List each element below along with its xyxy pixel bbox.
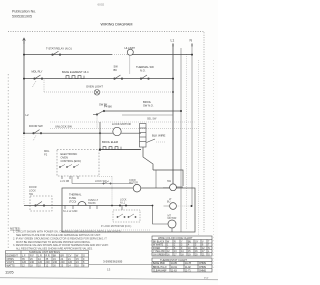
wire EOC to right dotted: [99, 176, 112, 178]
wire switch terminal down to dotted row: [96, 115, 98, 129]
switch on row1: [52, 51, 61, 55]
svg-text:GN GREEN: GN GREEN: [153, 254, 166, 256]
svg-text:G: G: [208, 254, 210, 256]
switch actuator linkage row7: [33, 136, 36, 142]
svg-text:P2: P2: [44, 152, 48, 156]
wire dotted neutral return 1: [186, 54, 188, 230]
svg-text:R RED: R RED: [153, 248, 160, 250]
lock motor circle: [113, 127, 121, 135]
svg-text:OHMS: OHMS: [199, 263, 206, 265]
svg-text:SW: SW: [29, 193, 34, 196]
svg-text:CONTROL (EOC): CONTROL (EOC): [61, 159, 82, 163]
svg-text:6002: 6002: [98, 3, 105, 7]
L1 bus top tick: [172, 44, 174, 47]
svg-text:BAKE 350F: BAKE 350F: [153, 262, 166, 265]
fuse side label: [88, 199, 99, 205]
EOC pins: [62, 176, 78, 179]
wire row lock to box: [24, 205, 62, 207]
oven lamp symbol: [94, 90, 100, 96]
junction dots on wire: [119, 205, 121, 207]
svg-text:SEL SW: SEL SW: [147, 118, 157, 121]
svg-text:OVEN LIGHT: OVEN LIGHT: [86, 85, 103, 89]
publication number header text: [12, 10, 36, 19]
row 3: oven lamp dotted wire: [44, 91, 173, 93]
svg-text:BU: BU: [167, 201, 171, 204]
svg-text:SW BK: SW BK: [88, 202, 96, 205]
svg-text:LOCK MOTOR: LOCK MOTOR: [112, 122, 131, 126]
svg-text:ELECTRONIC: ELECTRONIC: [61, 152, 78, 156]
svg-text:DOOR SW: DOOR SW: [29, 124, 43, 128]
junction left bus row1: [23, 54, 25, 56]
svg-text:10-91: 10-91: [171, 267, 178, 269]
lamp2 circle: [170, 203, 177, 210]
wire across to right bus: [153, 170, 183, 186]
wire inside box row: [62, 205, 153, 207]
wire stub circle left: [163, 187, 170, 189]
junction left bus row2: [23, 78, 25, 80]
svg-text:11-02: 11-02: [185, 267, 191, 269]
junction row8: [99, 149, 101, 151]
svg-text:(TCO): (TCO): [69, 200, 76, 204]
svg-text:SW N.O.: SW N.O.: [143, 104, 154, 108]
svg-text:BAKE ELEMENT 16.4: BAKE ELEMENT 16.4: [62, 70, 89, 74]
wire vertical x156: [155, 170, 157, 188]
EOC internal contact 1: [59, 165, 65, 168]
broil element resistive symbol: [103, 147, 121, 150]
lock sw contact: [103, 181, 111, 184]
wire row1 right segment: [128, 54, 193, 56]
svg-text:3-5995361905: 3-5995361905: [103, 259, 123, 263]
dotted wire lamp2 to N: [176, 205, 191, 207]
svg-text:FUSE: FUSE: [69, 196, 76, 200]
switch on row2 mid: [114, 75, 123, 79]
wire junction down to sub box: [121, 206, 123, 211]
junction row2 to L1 bus: [172, 78, 174, 80]
lock motor lower circle: [168, 220, 176, 228]
svg-text:CLEAN 840F: CLEAN 840F: [153, 269, 167, 272]
wire L1 right bus vertical: [172, 44, 174, 184]
svg-text:WIRE COLOR CODE CHART: WIRE COLOR CODE CHART: [158, 236, 193, 240]
svg-text:N L1: N L1: [120, 202, 126, 205]
svg-text:BLK WIRE: BLK WIRE: [152, 134, 166, 138]
left table: [6, 251, 89, 268]
notes underline: [10, 229, 20, 231]
left table cells: [7, 254, 86, 267]
junction label: [120, 199, 127, 205]
junction left bus row7: [23, 132, 25, 134]
svg-text:BU: BU: [188, 241, 192, 243]
lamp2 label: [167, 198, 172, 204]
svg-text:N.O.: N.O.: [140, 68, 146, 72]
EOC internal contact 2: [66, 165, 72, 168]
selector blade: [147, 139, 156, 143]
door lock dashed box: [30, 196, 52, 211]
svg-text:GY: GY: [195, 241, 199, 243]
svg-text:WIRING DIAGRAM: WIRING DIAGRAM: [101, 22, 133, 26]
svg-text:THERMAL: THERMAL: [69, 193, 82, 197]
lock switch wire in box: [72, 183, 133, 185]
switch on row7: [33, 130, 42, 134]
svg-text:BROIL ELEM: BROIL ELEM: [102, 140, 119, 144]
row 5 dotted wire: [50, 121, 195, 123]
svg-text:WATTS: WATTS: [7, 264, 16, 267]
switch actuator linkage row2: [33, 81, 37, 87]
sub dashed box: [113, 210, 140, 222]
row 4b wire: [93, 114, 97, 116]
svg-text:L1 N DB: L1 N DB: [60, 180, 69, 183]
switch inside lock box: [35, 202, 45, 207]
svg-text:5995361905: 5995361905: [12, 15, 32, 19]
svg-text:MDL RLY: MDL RLY: [32, 69, 43, 73]
dotted header rule: [8, 32, 204, 233]
EOC internal contact 3: [73, 165, 79, 168]
row 1: clock circuit wire: [24, 54, 112, 56]
switch on row2 right: [140, 75, 149, 79]
terminal block big box: [62, 188, 195, 232]
svg-text:BK BLACK: BK BLACK: [153, 240, 165, 243]
lower motor tick: [171, 228, 173, 232]
right table A cells: [153, 240, 210, 256]
svg-text:Publication No.: Publication No.: [12, 10, 36, 14]
svg-text:L2: L2: [26, 113, 30, 117]
switch on row2 mid label: [114, 65, 119, 72]
right table B: [152, 258, 212, 272]
svg-text:11-71: 11-71: [185, 270, 191, 272]
wire EOC pin down to lock switch: [71, 176, 73, 184]
wire dotted neutral return 2: [198, 60, 200, 235]
EOC dashed box: [57, 150, 99, 177]
page edge gray line: [0, 278, 218, 280]
row 6 dotted wire: [50, 128, 199, 130]
svg-text:OVEN: OVEN: [61, 155, 68, 159]
footer center rule: [89, 264, 152, 266]
thermal fuse bump: [78, 202, 86, 206]
junction row1 to N bus: [191, 54, 193, 56]
svg-text:10-78: 10-78: [185, 263, 192, 265]
right table A: [152, 236, 212, 256]
junction wire y205: [152, 205, 154, 207]
svg-text:UNLOCK SW: UNLOCK SW: [55, 125, 72, 129]
right table B cells: [153, 262, 206, 272]
svg-text:T-STAT RELAY (N.O.): T-STAT RELAY (N.O.): [46, 47, 72, 51]
row 4c wire right: [122, 114, 173, 116]
svg-text:THERMOSTAT CHART: THERMOSTAT CHART: [160, 258, 187, 262]
selector switch column: [140, 124, 147, 148]
svg-text:ALL RESISTANCE VALUES SHOWN AR: ALL RESISTANCE VALUES SHOWN ARE APPROXIM…: [16, 247, 93, 250]
wire N bus vertical: [191, 44, 193, 207]
terminal block text: [69, 193, 82, 204]
svg-text:10-85: 10-85: [171, 263, 178, 265]
junction row4 to L2: [180, 110, 182, 112]
svg-text:SW: SW: [167, 180, 172, 183]
wire left bus faint continuation: [23, 133, 25, 205]
svg-text:BK: BK: [114, 68, 118, 72]
node L1 top-left arrow: [23, 38, 26, 44]
faint vertical hi-limit to row2: [129, 56, 131, 75]
dotted wire bottom box: [65, 229, 150, 231]
wire row1 dotted segment: [112, 54, 128, 56]
junction row7 x100: [99, 132, 101, 134]
wire L2 right bus vertical: [180, 48, 182, 232]
junction dot x112: [111, 205, 113, 207]
svg-text:P4 BK: P4 BK: [104, 105, 112, 109]
riser row2 to row3: [43, 79, 45, 92]
terminal ticks: [65, 206, 97, 210]
door lock text left: [29, 186, 37, 196]
row 4 wire: [104, 110, 181, 112]
wire stub lamp2 left: [164, 205, 170, 207]
switch on row4: [96, 110, 105, 115]
svg-text:Y YELLOW: Y YELLOW: [153, 251, 165, 253]
wire stub circle right: [176, 186, 183, 188]
svg-text:OHMS: OHMS: [199, 267, 206, 269]
wire to lower motor: [153, 206, 168, 225]
svg-text:BROIL HI-LO: BROIL HI-LO: [153, 267, 167, 269]
junction row3 to L1 bus: [172, 91, 174, 93]
row 8 wire: [100, 149, 141, 151]
selector stub dotted: [156, 141, 166, 143]
svg-text:P. LOCK MOTOR SW (N.O.): P. LOCK MOTOR SW (N.O.): [101, 225, 132, 228]
svg-text:N L1 L2 GND: N L1 L2 GND: [63, 210, 78, 213]
svg-text:N: N: [190, 39, 193, 43]
light switch circle: [170, 184, 177, 191]
wire vertical into box: [111, 177, 113, 206]
sub box text: [117, 214, 136, 218]
lock motor label lower: [168, 214, 177, 220]
vertical from row5 to row8: [99, 122, 101, 150]
left page dashed border: [7, 74, 9, 248]
wire selector down: [143, 147, 153, 170]
svg-text:OHMS: OHMS: [199, 270, 206, 272]
svg-text:BROIL: BROIL: [143, 100, 152, 104]
bake element resistive symbol: [66, 76, 84, 79]
svg-text:W WHITE: W WHITE: [153, 245, 164, 247]
svg-text:L1: L1: [171, 39, 175, 43]
svg-text:11-63: 11-63: [171, 270, 177, 272]
EOC text: [61, 152, 82, 163]
N bus top tick: [191, 44, 193, 47]
svg-text:13: 13: [107, 268, 111, 272]
faint right page dotted border: [213, 60, 215, 270]
hi-limit thermostat circle on row1: [127, 49, 133, 55]
row 7 wire: [24, 132, 141, 134]
svg-text:1105: 1105: [5, 270, 14, 275]
switch on row2 left: [34, 75, 43, 79]
conv motor circle: [133, 184, 141, 192]
junction dot N: [191, 205, 193, 207]
wire L1 bus left vertical: [23, 38, 25, 133]
row 2: bake element wire: [24, 78, 173, 80]
svg-text:MDL: MDL: [44, 149, 50, 153]
